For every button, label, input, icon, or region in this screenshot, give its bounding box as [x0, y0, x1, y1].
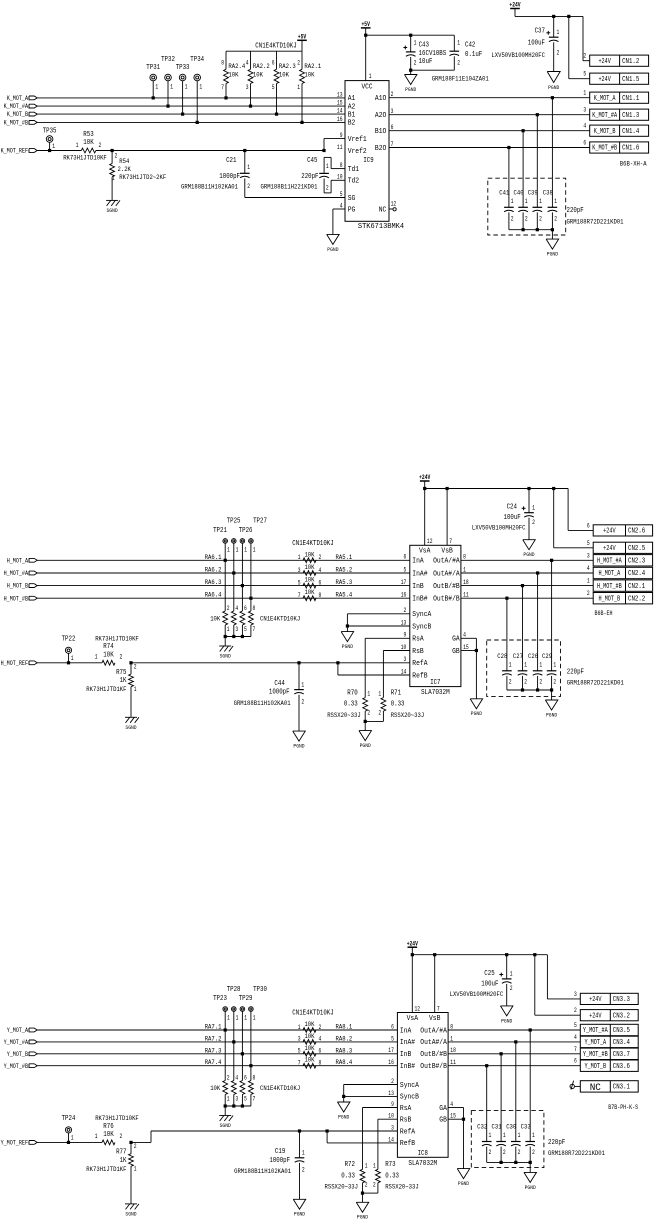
svg-text:Vref2: Vref2	[348, 148, 367, 156]
connector CN3.4	[580, 1036, 638, 1047]
svg-text:Y_MOT_B: Y_MOT_B	[7, 1051, 28, 1058]
svg-text:5: 5	[298, 579, 301, 586]
wire REF run	[131, 1141, 151, 1143]
svg-text:2: 2	[115, 152, 118, 159]
svg-text:Y_MOT_#A: Y_MOT_#A	[583, 1027, 608, 1035]
resistor RA7.4 pulldown	[250, 1066, 252, 1081]
svg-text:CN3.5: CN3.5	[613, 1027, 630, 1035]
svg-text:2: 2	[583, 53, 586, 60]
resistor R70	[365, 637, 410, 639]
svg-text:4: 4	[574, 1034, 577, 1041]
svg-text:RefA: RefA	[412, 660, 428, 668]
capacitor C40	[522, 131, 524, 208]
resistor R72	[363, 1107, 398, 1109]
svg-text:7: 7	[391, 141, 394, 148]
wire Y_MOT_B	[37, 1053, 397, 1055]
svg-text:5: 5	[340, 191, 343, 198]
svg-text:9: 9	[404, 632, 407, 639]
svg-text:6: 6	[272, 59, 275, 66]
connector CN3.3	[580, 993, 638, 1004]
svg-text:2: 2	[365, 1181, 368, 1188]
svg-text:K_MOT_#B: K_MOT_#B	[592, 145, 617, 153]
svg-text:1: 1	[170, 84, 173, 91]
node H_MOT_B flag	[29, 584, 37, 588]
svg-text:SLA7032M: SLA7032M	[408, 1160, 437, 1168]
svg-text:1: 1	[378, 691, 381, 698]
svg-text:6: 6	[587, 522, 590, 529]
svg-text:2: 2	[511, 216, 514, 223]
svg-text:TP27: TP27	[253, 518, 267, 526]
svg-text:13: 13	[337, 91, 343, 98]
svg-text:RA6.3: RA6.3	[205, 579, 222, 587]
svg-text:10K: 10K	[304, 551, 315, 559]
svg-text:RA2.3: RA2.3	[279, 63, 296, 71]
svg-text:TP34: TP34	[190, 56, 204, 64]
svg-text:CN1E4KTD10KJ: CN1E4KTD10KJ	[292, 1010, 333, 1018]
wire +24V rail	[412, 954, 547, 956]
svg-text:10K: 10K	[279, 71, 290, 79]
resistor RA6.1 pulldown	[224, 560, 226, 611]
resistor RA8.2 series	[303, 1040, 316, 1045]
svg-text:STK6713BMK4: STK6713BMK4	[358, 223, 404, 231]
svg-text:TP22: TP22	[62, 635, 76, 643]
wire A1O	[389, 97, 590, 99]
svg-text:2: 2	[539, 679, 542, 686]
svg-text:2.2K: 2.2K	[118, 166, 132, 174]
svg-text:OutA/#A: OutA/#A	[433, 558, 460, 566]
svg-text:2: 2	[509, 679, 512, 686]
svg-text:1: 1	[524, 661, 527, 668]
svg-text:TP32: TP32	[161, 56, 175, 64]
svg-text:RA6.2: RA6.2	[205, 567, 222, 575]
node Y_MOT_#A flag	[29, 1040, 37, 1044]
svg-text:+24V: +24V	[589, 996, 602, 1004]
svg-text:7: 7	[449, 538, 452, 545]
ground PGND C19	[293, 1199, 306, 1209]
capacitor C26	[537, 573, 539, 671]
svg-text:0.33: 0.33	[344, 701, 358, 709]
svg-text:GRM188R72D221KD01: GRM188R72D221KD01	[567, 679, 624, 687]
svg-text:1: 1	[95, 1133, 98, 1140]
svg-text:RA5.2: RA5.2	[336, 567, 353, 575]
svg-text:OutB/#B: OutB/#B	[420, 1051, 447, 1059]
svg-text:RA8.3: RA8.3	[336, 1047, 353, 1055]
svg-text:1: 1	[302, 1150, 305, 1157]
svg-text:SyncA: SyncA	[400, 1082, 420, 1090]
svg-text:OutB#/B: OutB#/B	[420, 1063, 447, 1071]
svg-text:C29: C29	[542, 653, 552, 661]
svg-text:H_MOT_A: H_MOT_A	[7, 557, 28, 564]
wire Y_MOT_#B	[448, 1053, 580, 1055]
svg-text:RA8.1: RA8.1	[336, 1024, 353, 1032]
svg-text:4: 4	[463, 632, 466, 639]
testpoint TP24	[37, 1141, 102, 1143]
svg-text:C30: C30	[506, 1124, 516, 1132]
connector CN1.1	[590, 92, 649, 103]
connector CN2.6	[593, 525, 652, 536]
wire +24V rail	[515, 15, 583, 17]
svg-text:3: 3	[298, 567, 301, 574]
svg-text:PGND: PGND	[547, 251, 559, 258]
svg-text:RA8.2: RA8.2	[336, 1035, 353, 1043]
svg-text:IC7: IC7	[430, 679, 440, 687]
svg-text:VsA: VsA	[419, 548, 431, 556]
svg-text:B6B-XH-A: B6B-XH-A	[620, 161, 648, 169]
svg-text:13: 13	[401, 619, 407, 626]
svg-text:2: 2	[134, 1143, 137, 1150]
ground SGND R54	[106, 199, 118, 201]
svg-text:10K: 10K	[210, 616, 221, 624]
svg-text:100uF: 100uF	[528, 40, 545, 48]
svg-text:R72: R72	[345, 1161, 355, 1169]
svg-text:CN1.4: CN1.4	[622, 128, 639, 136]
svg-text:GRM188B11H102KA01: GRM188B11H102KA01	[234, 700, 291, 708]
wire Y_MOT_#A	[448, 1029, 580, 1031]
capacitor C43	[409, 34, 412, 37]
svg-text:CN1E4KTD10KJ: CN1E4KTD10KJ	[255, 43, 296, 51]
svg-text:Y_MOT_A: Y_MOT_A	[584, 1039, 606, 1047]
svg-text:C26: C26	[528, 653, 538, 661]
svg-text:15: 15	[450, 1113, 456, 1120]
svg-text:1: 1	[199, 84, 202, 91]
svg-text:R75: R75	[116, 669, 126, 677]
svg-text:4: 4	[246, 59, 249, 66]
svg-text:+24V: +24V	[407, 940, 418, 947]
svg-text:SyncB: SyncB	[412, 623, 431, 631]
svg-text:R77: R77	[116, 1149, 126, 1157]
svg-text:1: 1	[365, 1162, 368, 1169]
svg-text:17: 17	[401, 579, 407, 586]
wire C21 to SG	[245, 197, 345, 199]
resistor RA2.2	[250, 51, 252, 69]
svg-text:VsB: VsB	[429, 1015, 440, 1023]
svg-text:C32: C32	[477, 1124, 487, 1132]
svg-text:PGND: PGND	[294, 1211, 306, 1218]
wire K_MOT input bus	[37, 97, 345, 99]
resistor RA6.3 pulldown	[241, 586, 243, 611]
svg-text:3: 3	[391, 108, 394, 115]
svg-text:1: 1	[539, 198, 542, 205]
svg-text:10K: 10K	[304, 1033, 315, 1041]
svg-text:H_MOT_#B: H_MOT_#B	[597, 583, 622, 591]
svg-text:B6B-EH: B6B-EH	[595, 610, 613, 617]
svg-text:100uF: 100uF	[504, 514, 521, 522]
svg-text:4: 4	[340, 202, 343, 209]
svg-text:1: 1	[450, 1035, 453, 1042]
svg-text:1: 1	[76, 142, 79, 149]
svg-text:B2O: B2O	[375, 145, 386, 153]
svg-text:2: 2	[319, 554, 322, 561]
svg-text:3: 3	[246, 84, 249, 91]
wire H_MOT_#B	[461, 585, 593, 587]
svg-text:7: 7	[298, 592, 301, 599]
node K_MOT_A flag	[29, 96, 37, 100]
svg-text:1: 1	[554, 198, 557, 205]
svg-text:2: 2	[227, 1074, 230, 1081]
svg-text:R76: R76	[103, 1123, 113, 1131]
svg-text:SyncB: SyncB	[400, 1094, 419, 1102]
wire pulldown bus	[225, 1105, 251, 1107]
svg-text:RefB: RefB	[412, 672, 427, 680]
svg-text:C28: C28	[497, 653, 507, 661]
svg-text:B1: B1	[348, 111, 356, 119]
node H_MOT_REF flag	[29, 661, 37, 665]
svg-text:16: 16	[401, 592, 407, 599]
node K_MOT_B flag	[29, 112, 37, 116]
svg-text:1: 1	[236, 1015, 239, 1022]
node C21 junction	[243, 149, 246, 152]
wire Y_MOT_A	[37, 1029, 397, 1031]
svg-text:1: 1	[253, 546, 256, 553]
svg-text:B1O: B1O	[375, 128, 386, 136]
wire +24V to lower row	[533, 953, 536, 956]
svg-text:1: 1	[525, 198, 528, 205]
svg-text:CN3.1: CN3.1	[613, 1084, 630, 1092]
svg-text:3: 3	[404, 656, 407, 663]
svg-text:2: 2	[557, 50, 560, 57]
svg-text:RSSX20~33J: RSSX20~33J	[327, 712, 361, 720]
svg-text:VsA: VsA	[407, 1015, 419, 1023]
svg-text:RsA: RsA	[400, 1105, 412, 1113]
svg-text:16: 16	[337, 116, 343, 123]
svg-text:2: 2	[391, 1078, 394, 1085]
ground PGND G	[470, 699, 483, 709]
svg-text:5: 5	[244, 626, 247, 633]
connector CN2.4	[593, 567, 652, 578]
svg-text:4: 4	[450, 1101, 453, 1108]
svg-text:1: 1	[463, 566, 466, 573]
svg-text:1: 1	[532, 505, 535, 512]
svg-text:5: 5	[574, 1022, 577, 1029]
svg-text:+5V: +5V	[362, 21, 371, 28]
svg-text:CN2.6: CN2.6	[628, 528, 645, 536]
svg-text:1: 1	[369, 73, 372, 80]
capacitor C28	[506, 598, 508, 671]
svg-text:1: 1	[367, 691, 370, 698]
wire bypass bus	[487, 1161, 531, 1163]
svg-text:CN1.6: CN1.6	[622, 145, 639, 153]
svg-text:2: 2	[297, 59, 300, 66]
resistor RA6.4 pulldown	[250, 598, 252, 611]
svg-text:TP25: TP25	[227, 518, 241, 526]
pin VsB	[433, 953, 436, 956]
ground PGND bypass	[529, 1162, 531, 1172]
svg-text:TP28: TP28	[227, 986, 241, 994]
svg-text:TP29: TP29	[239, 995, 253, 1003]
capacitor C25	[506, 955, 508, 979]
wire +24V to CN1.5	[568, 16, 570, 78]
svg-text:5: 5	[272, 84, 275, 91]
svg-text:GRM188R72D221KD01: GRM188R72D221KD01	[567, 219, 624, 227]
svg-text:10K: 10K	[304, 577, 315, 585]
svg-text:6: 6	[404, 554, 407, 561]
ground PGND C25	[500, 1006, 513, 1016]
svg-text:12: 12	[427, 538, 433, 545]
svg-text:9: 9	[391, 1101, 394, 1108]
svg-text:InB: InB	[412, 583, 423, 591]
svg-text:RA5.3: RA5.3	[336, 579, 353, 587]
svg-text:SLA7032M: SLA7032M	[421, 689, 450, 697]
svg-text:10K: 10K	[304, 1057, 315, 1065]
node Y_MOT_A flag	[29, 1028, 37, 1032]
svg-text:+24V: +24V	[598, 58, 611, 66]
svg-text:PGND: PGND	[548, 84, 560, 91]
svg-text:2: 2	[532, 519, 535, 526]
svg-text:1: 1	[414, 40, 417, 47]
svg-text:10K: 10K	[304, 1021, 315, 1029]
node Y_MOT_REF flag	[29, 1141, 37, 1145]
svg-text:C37: C37	[535, 28, 545, 36]
connector CN3.2	[580, 1010, 638, 1021]
svg-text:PGND: PGND	[327, 246, 339, 253]
svg-text:C43: C43	[419, 42, 429, 50]
node H_MOT_A flag	[29, 558, 37, 562]
ground SGND R77	[125, 1203, 137, 1205]
wire Y_MOT_B	[448, 1065, 580, 1067]
svg-text:GRM188F11E104ZA01: GRM188F11E104ZA01	[432, 75, 489, 83]
svg-text:1K: 1K	[120, 1157, 128, 1165]
svg-text:B2: B2	[348, 120, 356, 128]
svg-text:InB: InB	[400, 1051, 411, 1059]
ground PGND sense	[356, 1202, 369, 1212]
wire H_MOT_B	[461, 597, 593, 599]
svg-text:Y_MOT_A: Y_MOT_A	[7, 1027, 28, 1034]
node Y_MOT_B flag	[29, 1052, 37, 1056]
svg-text:8: 8	[253, 605, 256, 612]
svg-text:1: 1	[227, 546, 230, 553]
svg-text:PGND: PGND	[342, 643, 354, 650]
svg-text:1: 1	[247, 164, 250, 171]
ground PGND C24	[523, 540, 536, 550]
svg-text:10: 10	[337, 174, 343, 181]
svg-text:1: 1	[253, 1015, 256, 1022]
svg-text:TP21: TP21	[213, 527, 227, 535]
svg-text:RsB: RsB	[412, 648, 423, 656]
wire H_MOT_A	[461, 572, 593, 574]
resistor RA7.3 pulldown	[241, 1054, 243, 1081]
svg-text:TP31: TP31	[146, 64, 160, 72]
svg-text:2: 2	[319, 1024, 322, 1031]
svg-text:CN2.2: CN2.2	[628, 595, 645, 603]
node H_MOT_#B flag	[29, 596, 37, 600]
svg-text:15: 15	[463, 644, 469, 651]
svg-text:IC9: IC9	[363, 157, 373, 165]
svg-text:10K: 10K	[253, 71, 264, 79]
svg-text:C33: C33	[521, 1124, 531, 1132]
svg-text:LXV50VB100MH20FC: LXV50VB100MH20FC	[491, 52, 545, 60]
svg-text:1: 1	[532, 1132, 535, 1139]
svg-text:1: 1	[510, 971, 513, 978]
svg-text:16CV10BS: 16CV10BS	[419, 50, 447, 58]
svg-text:2: 2	[367, 710, 370, 717]
svg-text:TP35: TP35	[43, 128, 57, 136]
svg-text:H_MOT_B: H_MOT_B	[599, 595, 621, 603]
svg-text:1: 1	[301, 681, 304, 688]
svg-text:K_MOT_#B: K_MOT_#B	[4, 120, 28, 127]
svg-text:CN3.2: CN3.2	[613, 1012, 630, 1020]
connector CN1.6	[590, 142, 649, 153]
svg-text:CN2.4: CN2.4	[628, 570, 645, 578]
pin VsB	[446, 487, 449, 490]
svg-text:RA5.1: RA5.1	[336, 554, 353, 562]
svg-text:OutA#/A: OutA#/A	[420, 1039, 447, 1047]
svg-text:2: 2	[525, 216, 528, 223]
connector CN1.4	[590, 125, 649, 136]
svg-text:1K: 1K	[120, 677, 128, 685]
svg-text:TP30: TP30	[253, 986, 267, 994]
testpoint TP22	[37, 662, 102, 664]
svg-text:8: 8	[221, 59, 224, 66]
svg-text:1: 1	[457, 40, 460, 47]
svg-text:OutA/#A: OutA/#A	[420, 1027, 447, 1035]
svg-text:1: 1	[244, 1015, 247, 1022]
svg-text:InA: InA	[400, 1027, 412, 1035]
svg-text:R71: R71	[391, 689, 401, 697]
svg-text:10K: 10K	[304, 589, 315, 597]
svg-text:0.33: 0.33	[341, 1172, 355, 1180]
svg-text:R73: R73	[385, 1161, 395, 1169]
wire A2O	[389, 114, 590, 116]
svg-text:A2O: A2O	[375, 112, 386, 120]
svg-text:3: 3	[235, 626, 238, 633]
svg-text:B7B-PH-K-S: B7B-PH-K-S	[608, 1104, 638, 1111]
svg-text:CN1E4KTD10KJ: CN1E4KTD10KJ	[260, 616, 300, 624]
svg-text:1: 1	[298, 554, 301, 561]
svg-text:C19: C19	[275, 1148, 285, 1156]
connector CN3.7	[580, 1048, 638, 1059]
svg-text:Y_MOT_#B: Y_MOT_#B	[4, 1063, 28, 1070]
svg-text:0.1uF: 0.1uF	[465, 51, 482, 59]
svg-text:2: 2	[301, 698, 304, 705]
ground PGND G	[457, 1169, 470, 1179]
op-amp IC9 STK6713BMK4	[345, 81, 389, 222]
pin NC no-connect	[389, 208, 393, 210]
svg-text:15: 15	[337, 100, 343, 107]
svg-text:2: 2	[378, 710, 381, 717]
svg-text:2: 2	[302, 1167, 305, 1174]
svg-text:1: 1	[373, 1162, 376, 1169]
svg-text:1: 1	[244, 546, 247, 553]
svg-text:CN3.6: CN3.6	[613, 1063, 630, 1071]
svg-text:RK73H1JTD1KF: RK73H1JTD1KF	[86, 1166, 126, 1174]
svg-text:17: 17	[388, 1047, 394, 1054]
resistor RA2.4	[225, 51, 227, 69]
svg-text:3: 3	[298, 1036, 301, 1043]
svg-text:CN2.3: CN2.3	[628, 558, 645, 566]
wire H_MOT_#A	[461, 559, 593, 561]
svg-text:7: 7	[253, 1096, 256, 1103]
svg-text:+5V: +5V	[298, 34, 307, 41]
wire SyncA SyncB	[347, 613, 409, 615]
svg-text:7: 7	[574, 1046, 577, 1053]
svg-text:InA#: InA#	[400, 1039, 415, 1047]
resistor RA2.3	[276, 51, 278, 69]
svg-text:CN3.7: CN3.7	[613, 1051, 630, 1059]
svg-text:2: 2	[414, 59, 417, 66]
svg-text:2: 2	[587, 590, 590, 597]
svg-text:10uF: 10uF	[419, 58, 433, 66]
svg-text:C44: C44	[274, 680, 284, 688]
svg-text:H_MOT_#B: H_MOT_#B	[4, 595, 28, 602]
svg-text:InA#: InA#	[412, 570, 427, 578]
wire Vref bracket	[322, 149, 325, 152]
svg-text:C31: C31	[492, 1124, 502, 1132]
svg-text:C27: C27	[513, 653, 523, 661]
connector CN2.5	[593, 542, 652, 553]
svg-text:Vref1: Vref1	[348, 136, 367, 144]
ground PGND C43	[409, 69, 412, 72]
wire H_MOT_#A	[37, 572, 410, 574]
